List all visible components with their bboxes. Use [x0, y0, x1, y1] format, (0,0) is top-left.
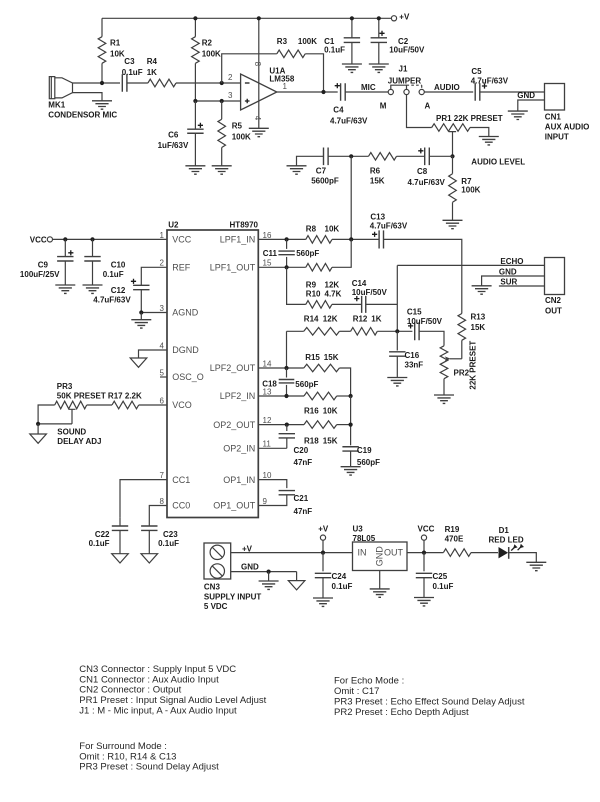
wire PR1 wiper [449, 132, 456, 157]
svg-text:R18: R18 [304, 436, 319, 445]
resistor R19 [443, 549, 471, 557]
svg-text:Omit : C17: Omit : C17 [334, 686, 379, 697]
ground R5 [212, 166, 232, 174]
wire jumper A to C5 [424, 91, 473, 93]
ground PR1 [479, 137, 499, 145]
resistor R4 [148, 79, 176, 87]
svg-text:Omit : R10, R14 & C13: Omit : R10, R14 & C13 [79, 751, 176, 762]
node supply ground [267, 570, 271, 574]
terminal +V top [391, 16, 396, 21]
svg-text:R1: R1 [110, 39, 121, 48]
wire OSC_O stub [160, 376, 167, 378]
svg-text:A: A [425, 101, 431, 110]
connector CN1 [545, 84, 565, 111]
svg-text:10: 10 [263, 471, 272, 480]
capacitor C21 [279, 491, 295, 495]
svg-text:1: 1 [283, 82, 288, 91]
wire DGND pin4 [139, 350, 168, 358]
node C1 top [350, 16, 354, 20]
wire PR3 to ground [37, 424, 39, 434]
svg-text:MK1: MK1 [48, 101, 65, 110]
wire R12 to node [377, 330, 412, 332]
capacitor C19 [342, 447, 358, 451]
wire R9 to vertical [332, 239, 351, 267]
wire C7 to node [328, 155, 351, 157]
svg-text:4.7uF/63V: 4.7uF/63V [471, 76, 509, 85]
ground C6 [185, 166, 205, 174]
node pin16 [285, 237, 289, 241]
node inverting input [220, 81, 224, 85]
node pin13 [284, 394, 288, 398]
svg-text:OP1_OUT: OP1_OUT [213, 501, 256, 511]
svg-text:AUX AUDIO: AUX AUDIO [545, 123, 590, 132]
svg-text:4.7uF/63V: 4.7uF/63V [408, 178, 446, 187]
svg-text:0.1uF: 0.1uF [103, 270, 124, 279]
ground C23 triangle [141, 554, 158, 563]
svg-text:PR2 Preset : Echo Depth Adjust: PR2 Preset : Echo Depth Adjust [334, 707, 469, 718]
svg-text:ECHO: ECHO [500, 257, 523, 266]
node C24 top [321, 551, 325, 555]
svg-text:R12: R12 [353, 315, 368, 324]
wire echo vertical [396, 265, 398, 331]
ground C24 [313, 598, 333, 606]
node AGND [139, 310, 143, 314]
svg-text:C5: C5 [471, 67, 482, 76]
wire C13 to R13 [384, 239, 462, 313]
capacitor C7 [324, 148, 329, 166]
svg-text:DELAY ADJ: DELAY ADJ [57, 437, 101, 446]
svg-text:OUT: OUT [545, 307, 562, 316]
svg-text:C4: C4 [333, 106, 344, 115]
svg-text:C15: C15 [407, 308, 422, 317]
wire R14 to R12 [339, 330, 350, 332]
ground mic [92, 101, 112, 109]
node audio level [450, 154, 454, 158]
svg-text:GND: GND [375, 546, 385, 567]
wire PR3 wiper [38, 409, 75, 424]
preset PR2 22K [440, 346, 448, 379]
svg-text:560pF: 560pF [357, 458, 380, 467]
wire R14 row lead [287, 330, 304, 332]
svg-text:15K: 15K [370, 177, 385, 186]
svg-text:16: 16 [263, 231, 272, 240]
resistor R8 [306, 236, 332, 244]
svg-text:R4: R4 [147, 57, 158, 66]
svg-text:For Echo Mode :: For Echo Mode : [334, 675, 404, 686]
svg-text:5 VDC: 5 VDC [204, 602, 228, 611]
capacitor C12 [133, 285, 149, 289]
svg-text:REF: REF [172, 263, 191, 273]
capacitor C9 [64, 239, 66, 256]
capacitor C3 [122, 74, 127, 92]
wire pin9 row [258, 495, 287, 506]
svg-text:CN3 Connector : Supply Input 5: CN3 Connector : Supply Input 5 VDC [79, 664, 236, 675]
svg-text:C19: C19 [357, 446, 372, 455]
svg-text:R9: R9 [306, 281, 317, 290]
resistor R2 [194, 18, 196, 36]
svg-text:VCO: VCO [172, 400, 192, 410]
svg-text:DGND: DGND [172, 345, 199, 355]
svg-text:0.1uF: 0.1uF [332, 582, 353, 591]
svg-text:C18: C18 [262, 379, 277, 388]
ground C1 [342, 64, 362, 72]
capacitor C13 [379, 230, 383, 248]
wire R6 to C8 [397, 155, 425, 157]
node C25 top [422, 551, 426, 555]
capacitor C2 [378, 18, 380, 38]
wire CN1 GND [518, 100, 545, 111]
ground C2 [369, 64, 389, 72]
svg-text:GND: GND [517, 91, 535, 100]
svg-text:10K: 10K [325, 224, 340, 233]
capacitor C1 [351, 18, 353, 38]
node R2 top [193, 16, 197, 20]
capacitor C16 [396, 331, 398, 350]
capacitor C4 [341, 83, 346, 101]
svg-text:VCC: VCC [172, 235, 192, 245]
wire op-amp output [277, 91, 338, 93]
node C2 top [377, 16, 381, 20]
node pin15 [285, 265, 289, 269]
wire pin12 row [258, 424, 304, 426]
wire to bar ground [268, 572, 270, 581]
svg-text:+V: +V [242, 545, 253, 554]
wire CC0 pin8 [149, 506, 167, 527]
wire PR1 to ground [470, 128, 489, 137]
ground R7 [443, 220, 463, 228]
resistor R14 [304, 328, 340, 336]
wire LED to ground [509, 553, 537, 563]
svg-text:M: M [380, 101, 387, 110]
svg-text:4.7K: 4.7K [325, 290, 342, 299]
wire SUR out [499, 285, 545, 287]
node R8 right [349, 237, 353, 241]
wire U3 ground [379, 571, 381, 589]
op-amp U1A LM358 [241, 74, 277, 110]
svg-text:3: 3 [228, 91, 233, 100]
ground DGND triangle [130, 358, 147, 367]
svg-text:C10: C10 [111, 261, 126, 270]
svg-text:C12: C12 [111, 286, 126, 295]
microphone MK1 [49, 77, 55, 99]
wire R8 to node [332, 238, 379, 240]
wire jumper center to PR1 [407, 95, 432, 128]
svg-text:10uF/50V: 10uF/50V [352, 288, 388, 297]
svg-text:CONDENSOR MIC: CONDENSOR MIC [48, 111, 117, 120]
capacitor C8 [425, 148, 430, 166]
ground PR3 triangle [30, 434, 47, 443]
ground C10 [83, 285, 103, 293]
svg-text:14: 14 [263, 359, 272, 368]
resistor R12 [351, 328, 378, 336]
svg-text:50K PRESET R17 2.2K: 50K PRESET R17 2.2K [57, 392, 142, 401]
svg-text:PR3: PR3 [57, 382, 73, 391]
capacitor C18 [286, 368, 288, 378]
svg-text:4.7uF/63V: 4.7uF/63V [330, 117, 368, 126]
svg-text:C21: C21 [294, 494, 309, 503]
svg-text:C23: C23 [163, 530, 178, 539]
capacitor C22 [119, 517, 121, 526]
svg-text:78L05: 78L05 [353, 534, 376, 543]
svg-text:R6: R6 [370, 167, 381, 176]
svg-text:470E: 470E [445, 534, 464, 543]
wire pin13 row [258, 395, 304, 397]
wire +V terminal [322, 540, 324, 552]
wire pin11 row [258, 447, 287, 449]
svg-text:IN: IN [358, 548, 367, 558]
node pin14 [284, 366, 288, 370]
svg-text:CN3: CN3 [204, 583, 221, 592]
svg-text:12K: 12K [323, 315, 338, 324]
wire C7 to ground [297, 156, 324, 166]
svg-text:+V: +V [399, 12, 410, 21]
wire R19 to LED [471, 552, 498, 554]
resistor R15 [304, 364, 340, 372]
svg-text:HT8970: HT8970 [230, 221, 259, 230]
svg-text:22K PRESET: 22K PRESET [468, 341, 477, 390]
svg-text:C22: C22 [95, 530, 110, 539]
ground C19 [341, 467, 361, 475]
svg-text:4: 4 [253, 116, 262, 121]
resistor R5 [221, 101, 223, 119]
ground CN1 [508, 111, 528, 119]
wire pin10 row [258, 480, 287, 489]
svg-text:AUDIO: AUDIO [434, 83, 460, 92]
node pin3 [220, 99, 224, 103]
svg-text:100K: 100K [232, 133, 251, 142]
svg-text:D1: D1 [499, 526, 510, 535]
svg-text:AGND: AGND [172, 308, 199, 318]
capacitor C25 [423, 553, 425, 572]
svg-text:11: 11 [263, 440, 272, 449]
preset PR3 50K [55, 401, 87, 409]
svg-text:0.1uF: 0.1uF [158, 539, 179, 548]
ground C22 triangle [112, 554, 129, 563]
wire C5 to CN1 [480, 91, 545, 93]
svg-text:OSC_O: OSC_O [172, 372, 204, 382]
node op-amp power rail [257, 16, 261, 20]
resistor R17 [112, 401, 139, 409]
svg-text:R2: R2 [202, 39, 213, 48]
svg-text:CC1: CC1 [172, 475, 190, 485]
wire input node vertical [350, 156, 352, 239]
svg-text:100K: 100K [461, 185, 480, 194]
svg-text:U2: U2 [168, 221, 179, 230]
wire top +V rail [102, 17, 391, 19]
svg-text:R10: R10 [306, 290, 321, 299]
wire feedback to R3 [222, 54, 277, 83]
svg-text:U3: U3 [353, 525, 364, 534]
svg-text:7: 7 [160, 471, 165, 480]
node C7/R6 [349, 154, 353, 158]
svg-text:MIC: MIC [361, 83, 376, 92]
svg-text:0.1uF: 0.1uF [122, 68, 143, 77]
svg-text:+V: +V [318, 525, 329, 534]
svg-text:2: 2 [160, 259, 165, 268]
svg-text:6: 6 [160, 396, 165, 405]
svg-text:47nF: 47nF [294, 458, 313, 467]
svg-text:CN1: CN1 [545, 112, 562, 121]
svg-text:560pF: 560pF [296, 249, 319, 258]
terminal VCC bottom [421, 535, 426, 540]
svg-text:47nF: 47nF [294, 507, 313, 516]
svg-text:1K: 1K [371, 315, 381, 324]
wire U3 out [407, 552, 443, 554]
svg-text:10K: 10K [323, 407, 338, 416]
svg-text:C6: C6 [168, 130, 179, 139]
svg-text:RED LED: RED LED [489, 536, 524, 545]
wire C15 to PR2 [419, 331, 444, 346]
wire R4 to op-amp pin2 [176, 82, 241, 84]
capacitor C14 [362, 296, 366, 313]
svg-text:100K: 100K [298, 37, 317, 46]
svg-text:GND: GND [241, 563, 259, 572]
svg-text:4.7uF/63V: 4.7uF/63V [370, 222, 408, 231]
connector CN3 terminal block [204, 543, 231, 579]
resistor R3 [277, 50, 305, 58]
svg-text:R8: R8 [306, 224, 317, 233]
node bias [193, 99, 197, 103]
svg-text:C25: C25 [433, 572, 448, 581]
ground supply triangle [288, 581, 305, 590]
node mic junction [100, 81, 104, 85]
wire PR2 to ground [443, 379, 445, 395]
svg-text:OP1_IN: OP1_IN [223, 475, 255, 485]
node PR3 [36, 422, 40, 426]
svg-text:PR1 Preset : Input Signal Audi: PR1 Preset : Input Signal Audio Level Ad… [79, 695, 266, 706]
svg-text:C9: C9 [38, 261, 49, 270]
ground C7 [287, 166, 307, 174]
wire mic output [73, 82, 121, 84]
svg-text:JUMPER: JUMPER [388, 76, 422, 85]
svg-text:4: 4 [160, 341, 165, 350]
svg-text:J1 : M - Mic input, A - Aux Au: J1 : M - Mic input, A - Aux Audio Input [79, 706, 237, 717]
svg-text:VCC: VCC [30, 235, 47, 244]
capacitor C20 [286, 425, 288, 431]
svg-text:C16: C16 [405, 351, 420, 360]
ground CN2 [472, 286, 492, 294]
svg-text:12: 12 [263, 416, 272, 425]
node pin13 right [349, 394, 353, 398]
svg-text:15K: 15K [323, 436, 338, 445]
wire R15 to pin13 row [339, 368, 350, 396]
svg-text:4.7uF/63V: 4.7uF/63V [93, 295, 131, 304]
wire bias node to pin3 [195, 100, 240, 102]
svg-text:OP2_IN: OP2_IN [223, 444, 255, 454]
svg-text:C14: C14 [352, 279, 367, 288]
wire pin15 row [258, 266, 306, 268]
svg-text:LPF1_IN: LPF1_IN [220, 235, 256, 245]
svg-text:R5: R5 [232, 122, 243, 131]
wire C4 to jumper M [345, 91, 388, 93]
svg-text:C11: C11 [263, 249, 278, 258]
svg-text:R16: R16 [304, 407, 319, 416]
svg-text:33nF: 33nF [405, 361, 424, 370]
svg-text:LPF2_IN: LPF2_IN [220, 391, 256, 401]
svg-text:R15: R15 [305, 353, 320, 362]
svg-text:5600pF: 5600pF [311, 177, 339, 186]
svg-text:10uF/50V: 10uF/50V [407, 317, 443, 326]
svg-text:SOUND: SOUND [57, 428, 86, 437]
wire R14 row vertical [286, 331, 288, 368]
svg-text:15: 15 [263, 259, 272, 268]
svg-text:1uF/63V: 1uF/63V [158, 141, 189, 150]
wire pin15 to R10 [287, 267, 306, 304]
svg-text:PR3 Preset : Sound Delay Adjus: PR3 Preset : Sound Delay Adjust [79, 762, 219, 773]
node feedback/output [321, 90, 325, 94]
node pin12 [285, 423, 289, 427]
svg-text:R3: R3 [277, 37, 288, 46]
svg-text:5: 5 [160, 368, 165, 377]
capacitor C23 [141, 526, 157, 530]
capacitor C15 [415, 322, 419, 340]
resistor R10 [306, 301, 332, 309]
wire VCC to pin1 [53, 238, 168, 240]
wire C8 to node [429, 155, 452, 157]
svg-text:1K: 1K [147, 68, 157, 77]
LED D1 [499, 547, 509, 558]
svg-text:1: 1 [160, 231, 165, 240]
svg-text:GND: GND [499, 267, 517, 276]
capacitor C24 [322, 553, 324, 572]
svg-text:SUPPLY INPUT: SUPPLY INPUT [204, 593, 261, 602]
ground C25 [414, 598, 434, 606]
wire pin14 row [258, 367, 304, 369]
terminal VCC [47, 237, 52, 242]
wire CN2 GND [482, 276, 545, 286]
svg-text:INPUT: INPUT [545, 132, 569, 141]
resistor R6 [369, 153, 397, 161]
wire node to R6 [351, 155, 368, 157]
terminal +V bottom [320, 535, 325, 540]
svg-text:C24: C24 [332, 572, 347, 581]
wire PR3 left wrap [38, 405, 55, 424]
svg-text:100K: 100K [202, 49, 221, 58]
svg-text:R14: R14 [304, 315, 319, 324]
svg-text:For Surround Mode :: For Surround Mode : [79, 741, 167, 752]
capacitor C6 [194, 101, 196, 129]
svg-text:C7: C7 [316, 167, 327, 176]
regulator U3 78L05 [353, 542, 408, 571]
svg-text:8: 8 [160, 497, 165, 506]
svg-text:PR1 22K PRESET: PR1 22K PRESET [436, 114, 503, 123]
svg-text:CC0: CC0 [172, 501, 190, 511]
svg-text:15K: 15K [324, 353, 339, 362]
svg-text:CN2: CN2 [545, 296, 562, 305]
svg-text:R19: R19 [445, 525, 460, 534]
ground C9 [55, 285, 75, 293]
svg-text:OUT: OUT [384, 548, 404, 558]
ground PR2 [434, 395, 454, 403]
wire R10 to C14 [332, 303, 362, 305]
svg-text:SUR: SUR [500, 278, 517, 287]
wire ECHO out [397, 264, 544, 266]
resistor R7 [452, 156, 454, 173]
wire AGND to ground [140, 313, 142, 320]
wire VCC terminal [423, 540, 425, 552]
ground AGND [131, 320, 151, 328]
wire R18 to node [337, 424, 351, 426]
resistor R9 [306, 264, 332, 272]
wire R3 to output [305, 54, 323, 92]
wire AGND pin3 [141, 312, 167, 314]
wire op-amp power [258, 18, 260, 128]
svg-text:OP2_OUT: OP2_OUT [213, 420, 256, 430]
wire +V supply [231, 552, 353, 554]
svg-text:0.1uF: 0.1uF [433, 582, 454, 591]
svg-text:10uF/50V: 10uF/50V [389, 46, 425, 55]
resistor R13 [458, 314, 466, 341]
